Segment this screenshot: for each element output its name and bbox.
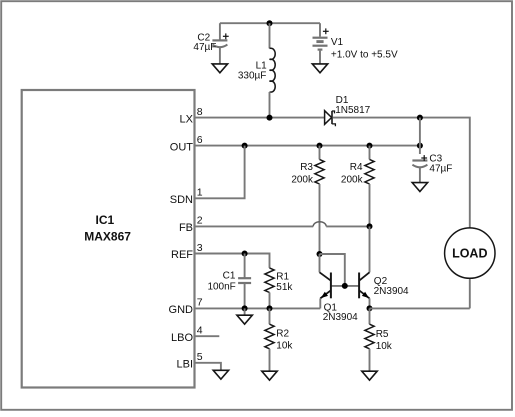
pin 2 FB label: [179, 215, 203, 234]
node base junction dot: [342, 283, 348, 289]
svg-text:47µF: 47µF: [429, 163, 452, 174]
svg-text:5: 5: [197, 351, 203, 363]
resistor R5 10k: [365, 308, 393, 371]
resistor R2 10k: [265, 308, 294, 371]
svg-text:200k: 200k: [291, 174, 314, 185]
wire GND row: [195, 307, 321, 309]
pin 7 GND label: [169, 297, 203, 316]
wire LBO stub: [195, 335, 220, 337]
svg-text:OUT: OUT: [170, 141, 194, 153]
node FB/R4 dot: [367, 223, 373, 229]
wire OUT row: [195, 145, 420, 147]
svg-text:330µF: 330µF: [238, 71, 267, 82]
battery V1: [313, 23, 398, 64]
node L1/LX junction dot: [267, 115, 273, 121]
svg-text:R3: R3: [300, 162, 313, 173]
wire LX row after diode: [333, 118, 470, 228]
wire LBI to ground: [195, 363, 221, 371]
node top junction dot: [267, 20, 273, 26]
svg-text:47µF: 47µF: [193, 42, 216, 53]
svg-text:R2: R2: [276, 329, 289, 340]
node R3/Q1 collector dot: [317, 251, 323, 257]
pin 6 OUT label: [170, 134, 203, 153]
wire collector node to bases: [320, 254, 345, 286]
pin 8 LX label: [180, 106, 203, 125]
svg-text:1N5817: 1N5817: [335, 105, 370, 116]
svg-text:V1: V1: [331, 37, 344, 48]
svg-text:2N3904: 2N3904: [374, 286, 409, 297]
svg-text:LX: LX: [180, 113, 194, 125]
svg-text:1: 1: [197, 187, 203, 199]
svg-text:51k: 51k: [276, 282, 293, 293]
svg-text:2N3904: 2N3904: [323, 312, 358, 323]
svg-text:200k: 200k: [341, 174, 364, 185]
capacitor C1 100nF: [207, 254, 251, 309]
resistor R3 200k: [291, 146, 324, 254]
ground below R2: [262, 371, 277, 380]
svg-text:REF: REF: [171, 249, 193, 261]
svg-text:GND: GND: [169, 304, 194, 316]
transistor Q1 2N3904: [320, 254, 359, 323]
svg-text:8: 8: [197, 106, 203, 118]
node OUT/R4 dot: [367, 143, 373, 149]
transistor Q2 2N3904: [359, 226, 409, 308]
svg-text:SDN: SDN: [170, 194, 193, 206]
ground below C2: [212, 64, 227, 73]
resistor R1 51k: [265, 268, 294, 309]
svg-text:4: 4: [197, 325, 203, 337]
wire LX row: [195, 117, 325, 119]
svg-text:R4: R4: [350, 162, 363, 173]
wire C3 column from LX to OUT: [419, 118, 421, 154]
svg-text:LBI: LBI: [176, 359, 193, 371]
LOAD circle: [445, 228, 495, 278]
svg-text:IC1: IC1: [96, 213, 115, 227]
svg-text:2: 2: [197, 215, 203, 227]
pin 1 SDN label: [170, 187, 203, 206]
svg-text:10k: 10k: [376, 341, 393, 352]
diode D1 1N5817: [325, 95, 371, 126]
wire top rail C2 to V1: [220, 22, 320, 24]
wire base link Q1-Q2: [331, 285, 359, 287]
svg-text:FB: FB: [179, 222, 193, 234]
pin 4 LBO label: [171, 325, 203, 344]
svg-text:7: 7: [197, 297, 203, 309]
resistor R4 200k: [341, 146, 374, 227]
wire FB row with hop: [195, 222, 370, 227]
ground below C1: [237, 308, 252, 324]
ground below C3: [412, 183, 427, 192]
node REF/C1 dot: [242, 251, 248, 257]
svg-text:+1.0V to +5.5V: +1.0V to +5.5V: [331, 49, 398, 60]
node LX/C3 column dot: [417, 115, 423, 121]
node OUT/R3 dot: [317, 143, 323, 149]
node GND/R1/R2 dot: [267, 305, 273, 311]
pin 3 REF label: [171, 242, 203, 261]
wire SDN to OUT: [195, 146, 245, 199]
node OUT/C3 dot: [417, 143, 423, 149]
ground below V1: [312, 64, 327, 73]
svg-text:LBO: LBO: [171, 332, 193, 344]
svg-text:100nF: 100nF: [207, 281, 235, 292]
svg-text:3: 3: [197, 242, 203, 254]
ground below R5: [362, 371, 377, 380]
svg-text:R5: R5: [376, 329, 389, 340]
node Q2 emitter / R5 dot: [367, 305, 373, 311]
svg-text:C1: C1: [223, 271, 236, 282]
svg-text:R1: R1: [276, 271, 289, 282]
svg-text:6: 6: [197, 134, 203, 146]
node GND/C1 dot: [242, 305, 248, 311]
node OUT/SDN dot: [242, 143, 248, 149]
svg-text:MAX867: MAX867: [84, 230, 131, 244]
wire REF row: [195, 254, 270, 268]
ground below LBI: [213, 370, 228, 379]
wire LOAD bottom: [469, 278, 471, 308]
capacitor C3: [412, 153, 452, 182]
svg-text:10k: 10k: [276, 340, 293, 351]
pin 5 LBI label: [176, 351, 202, 370]
svg-text:LOAD: LOAD: [452, 247, 487, 261]
wire Q2 emitter to LOAD: [370, 307, 470, 309]
inductor L1: [238, 23, 275, 117]
IC IC1 MAX867 box: [22, 90, 195, 388]
capacitor C2: [193, 23, 228, 64]
